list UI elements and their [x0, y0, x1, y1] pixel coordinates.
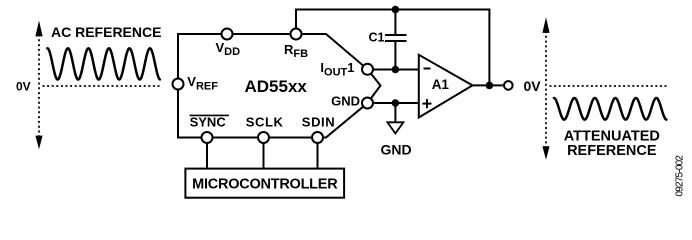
svg-text:SCLK: SCLK [246, 115, 284, 130]
svg-text:MICROCONTROLLER: MICROCONTROLLER [192, 177, 338, 193]
svg-text:SDIN: SDIN [302, 115, 335, 130]
svg-text:REFERENCE: REFERENCE [567, 143, 657, 159]
svg-text:SYNC: SYNC [190, 115, 227, 130]
svg-text:GND: GND [380, 141, 411, 157]
svg-text:0V: 0V [524, 78, 542, 94]
svg-text:AD55xx: AD55xx [245, 77, 308, 96]
svg-text:GND: GND [331, 94, 360, 109]
svg-text:A1: A1 [432, 77, 450, 92]
svg-text:0V: 0V [16, 80, 31, 94]
svg-text:09275-002: 09275-002 [675, 155, 686, 197]
svg-text:C1: C1 [369, 31, 385, 45]
svg-text:AC REFERENCE: AC REFERENCE [51, 24, 161, 40]
